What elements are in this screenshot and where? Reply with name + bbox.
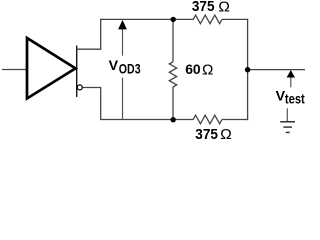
junction node bottom (rail / 60 ohm): [171, 117, 176, 122]
wire Y (noninverting output): [77, 48, 101, 50]
label Vtest: [276, 88, 305, 106]
svg-text:OD3: OD3: [119, 60, 141, 76]
resistor R1 375 ohm (top): [193, 15, 222, 24]
svg-text:V: V: [109, 58, 119, 74]
svg-text:Ω: Ω: [220, 127, 232, 140]
wire top rail right segment: [222, 18, 248, 20]
wire left rail upper: [100, 19, 102, 50]
resistor R3 60 ohm bottom lead: [172, 87, 174, 120]
arrowhead VOD3: [118, 20, 127, 30]
label VOD3: [109, 58, 141, 77]
wire input: [2, 69, 26, 71]
svg-text:test: test: [285, 91, 305, 107]
resistor R3 60 ohm top lead: [172, 19, 174, 61]
wire top rail left segment: [100, 18, 193, 20]
ground GND bar 2: [283, 126, 292, 128]
junction node top (rail / 60 ohm): [171, 17, 176, 22]
svg-text:375: 375: [192, 0, 215, 15]
ground GND stem: [286, 108, 288, 121]
driver U1 (buffer triangle): [27, 38, 76, 99]
svg-text:Ω: Ω: [218, 0, 230, 15]
svg-text:375: 375: [195, 127, 218, 140]
arrow stem VOD3 upper: [122, 29, 124, 56]
wire bottom rail right segment: [222, 119, 248, 121]
wire bottom rail left segment: [100, 119, 193, 121]
label 375 ohm (bottom): [195, 127, 232, 143]
wire Z (inverting output): [83, 87, 101, 89]
arrowhead Vtest: [287, 70, 295, 78]
label 375 ohm (top): [192, 0, 230, 15]
wire right rail: [247, 19, 249, 120]
ground GND bar 1: [280, 121, 295, 123]
arrow stem Vtest: [290, 77, 292, 87]
svg-text:Ω: Ω: [202, 63, 213, 79]
resistor R2 375 ohm (bottom): [193, 115, 222, 124]
label 60 ohm: [185, 61, 213, 78]
wire Vtest tap: [248, 69, 305, 71]
resistor R3 60 ohm zigzag: [169, 62, 176, 87]
driver output bar: [76, 46, 78, 98]
svg-text:60: 60: [185, 61, 201, 77]
arrow stem VOD3 lower: [122, 78, 124, 120]
inverting output bubble: [77, 85, 82, 90]
junction node right (rail / Vtest): [245, 67, 250, 72]
ground GND bar 3: [286, 131, 290, 133]
wire left rail lower: [100, 87, 102, 120]
